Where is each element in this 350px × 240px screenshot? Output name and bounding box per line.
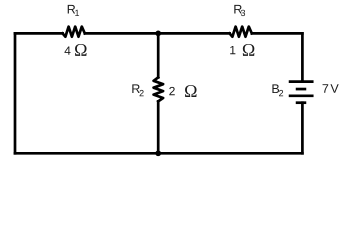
label B2 subscript 2	[279, 90, 283, 96]
value ohm for R2	[185, 85, 197, 97]
wire: left side vertical	[14, 33, 17, 153]
value ohm for R1	[75, 44, 87, 56]
value 1	[230, 46, 235, 54]
value 4	[64, 46, 70, 54]
label R1 subscript 1	[75, 10, 79, 16]
value 7	[323, 84, 329, 93]
battery B2 plate: lower long	[290, 94, 312, 97]
label B2	[272, 84, 279, 93]
wire: top, segment between R1 and R3	[85, 32, 230, 35]
node: top junction dot	[155, 31, 161, 37]
label R3	[234, 5, 241, 14]
wire: right side upper, corner down to battery	[301, 33, 304, 81]
value 2	[169, 87, 174, 95]
wire: middle branch lower, from R2 to bottom node	[157, 101, 160, 153]
label R2	[132, 84, 139, 93]
label R3 subscript 3	[241, 10, 245, 16]
value V	[330, 84, 338, 93]
value ohm for R3	[243, 44, 255, 56]
resistor R2	[154, 77, 164, 101]
wire: middle branch upper, from top node to R2	[157, 33, 160, 77]
battery B2 plate: bottom short	[297, 101, 305, 104]
label R2 subscript 2	[140, 90, 144, 96]
node: bottom junction dot	[155, 150, 161, 156]
battery B2 plate: upper short	[297, 88, 305, 91]
resistor R1	[63, 27, 85, 37]
wire: right side lower, battery down to bottom corner	[301, 103, 304, 154]
wire: top, segment from R3 to right corner	[252, 32, 303, 35]
label R1	[68, 5, 75, 14]
wire: bottom	[15, 152, 302, 155]
resistor R3	[230, 27, 252, 37]
wire: top, segment from left corner to R1	[15, 32, 63, 35]
battery B2 plate: top long	[290, 80, 312, 83]
